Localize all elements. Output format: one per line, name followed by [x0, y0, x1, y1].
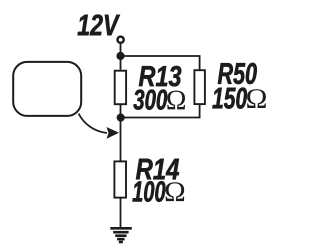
- resistor R14 body: [114, 161, 126, 197]
- value ohm symbol R50: [247, 89, 266, 108]
- label R50: [218, 63, 257, 84]
- node 12V label: [78, 15, 120, 36]
- junction node top: [116, 52, 124, 60]
- junction node bottom: [117, 114, 125, 122]
- wire R50 bottom to bottom node: [121, 105, 200, 118]
- callout arrow curve: [79, 114, 108, 134]
- value ohm symbol R14: [166, 182, 185, 201]
- value 300: [133, 90, 167, 110]
- value 150: [212, 88, 247, 109]
- wire R14 to ground: [120, 199, 122, 229]
- terminal 12V: [118, 37, 124, 43]
- wire terminal to top node: [120, 44, 122, 70]
- wire top branch to R50: [121, 56, 200, 70]
- callout box: [13, 62, 81, 116]
- resistor R50 body: [194, 70, 205, 104]
- value ohm symbol R13: [167, 91, 185, 110]
- wire R13 bottom to R14 top: [120, 105, 122, 161]
- ground symbol: [110, 228, 132, 242]
- resistor R13 body: [115, 71, 126, 105]
- label R14: [136, 159, 179, 180]
- label R13: [139, 66, 181, 87]
- callout arrowhead: [107, 127, 120, 139]
- value 100: [133, 181, 166, 202]
